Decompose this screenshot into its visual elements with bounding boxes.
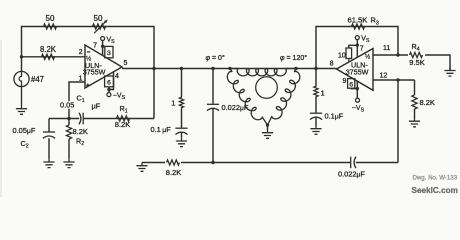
wire pin 7 — [102, 41, 104, 56]
svg-text:4: 4 — [115, 73, 119, 80]
wire box6b to -Vs — [351, 87, 357, 89]
node feedback junction — [67, 117, 70, 120]
wire pin 11 — [373, 55, 450, 71]
svg-text:½: ½ — [365, 53, 370, 60]
svg-text:6: 6 — [107, 80, 111, 87]
node delta TL — [228, 67, 231, 70]
svg-text:Dwg. No. W-133: Dwg. No. W-133 — [413, 175, 458, 182]
svg-text:6: 6 — [349, 82, 353, 89]
node bus-branch3 — [314, 67, 317, 70]
op-amp minus — [87, 51, 90, 53]
svg-text:2: 2 — [79, 49, 83, 56]
svg-text:#47: #47 — [31, 75, 44, 84]
svg-text:8: 8 — [330, 61, 334, 68]
capacitor 0.022uF (bottom) — [350, 157, 352, 169]
svg-text:9: 9 — [343, 78, 347, 85]
rotor circle — [256, 77, 278, 99]
svg-text:11: 11 — [383, 45, 390, 52]
wire input — [22, 56, 86, 58]
capacitor C1 0.05uF — [79, 113, 81, 125]
inductor delta top winding — [230, 69, 296, 76]
lamp DS1 #47 — [14, 71, 29, 86]
wire feedback vertical — [153, 69, 155, 119]
svg-text:SeekIC.com: SeekIC.com — [412, 186, 458, 195]
svg-text:φ = 120°: φ = 120° — [280, 54, 307, 62]
capacitor 0.1uF (left) — [175, 127, 187, 129]
svg-text:7: 7 — [360, 46, 364, 53]
op-amp U1b ½ ULN-3755W — [337, 49, 374, 91]
wire pin 1 to node — [69, 82, 85, 119]
capacitor 0.1uF (right) — [310, 112, 322, 114]
node Vs junction (U1b) — [356, 44, 359, 47]
node output-feedback — [152, 67, 155, 70]
svg-text:0.1μF: 0.1μF — [325, 111, 344, 120]
label 0.05 uF — [59, 101, 75, 109]
ground (lamp) — [16, 106, 27, 115]
inductor delta left winding — [227, 69, 267, 126]
svg-text:8.2K: 8.2K — [73, 127, 88, 136]
wire to ground — [181, 133, 183, 138]
capacitor 0.022uF (vertical) — [207, 103, 219, 105]
wire edge to -Vs node — [356, 81, 358, 88]
svg-text:0.05: 0.05 — [60, 101, 74, 110]
terminal -Vs (U1a) — [107, 93, 111, 97]
wire to ground (right 0.1) — [315, 118, 317, 126]
node pin12 — [396, 78, 399, 81]
node -Vs junction (U1a) — [107, 88, 110, 91]
node -Vs junction (U1b) — [356, 87, 359, 90]
resistor 1 (right) — [315, 69, 317, 87]
wire pin 4 — [109, 72, 114, 89]
wire delta to ground — [267, 125, 269, 130]
resistor R1 8.2K — [117, 116, 130, 121]
node bus-branch1 — [180, 67, 183, 70]
svg-text:3755W: 3755W — [346, 67, 369, 76]
op-amp plus — [86, 84, 89, 86]
wire 0.022 top — [212, 69, 214, 104]
wire -Vs stub — [356, 89, 358, 99]
inductor delta right winding — [268, 69, 300, 126]
resistor 50 (fixed) — [44, 24, 57, 29]
svg-text:5: 5 — [124, 60, 128, 67]
capacitor C2 0.05uF — [43, 131, 55, 133]
resistor 1 (left) — [181, 69, 183, 98]
wire main bus — [122, 68, 337, 70]
internal box pin 10 — [346, 48, 352, 59]
svg-text:50: 50 — [94, 14, 103, 23]
wire feedback line — [49, 118, 79, 120]
svg-text:3: 3 — [107, 50, 111, 57]
terminal Vs (U1a) — [101, 37, 105, 41]
resistor 8.2K (bottom) — [165, 158, 181, 167]
ground (R2) — [63, 159, 74, 168]
wire C2 branch — [48, 119, 50, 133]
svg-text:8.2K: 8.2K — [420, 98, 435, 107]
op-amp U1a ½ ULN-3755W — [85, 45, 122, 88]
wire jog to box 10 — [349, 45, 358, 48]
node Vs junction (U1a) — [101, 45, 104, 48]
svg-text:3755W: 3755W — [83, 68, 106, 77]
svg-text:7: 7 — [93, 43, 97, 50]
svg-text:8.2K: 8.2K — [115, 120, 130, 129]
wire R3 loop — [316, 27, 398, 69]
resistor 8.2K (pin12) — [414, 80, 416, 95]
wire pin 7 (U1b) — [356, 40, 358, 58]
wire pin 12 — [373, 79, 415, 81]
resistor 8.2K (input) — [42, 54, 55, 59]
node input junction — [20, 55, 23, 58]
resistor R2 8.2K — [68, 119, 70, 126]
svg-text:1: 1 — [171, 99, 175, 108]
wire bottom bus — [142, 162, 351, 164]
node bottom-0.022 — [211, 161, 214, 164]
resistor R4 9.5K — [408, 51, 425, 60]
svg-text:0.022μF: 0.022μF — [338, 169, 365, 178]
terminal -Vs (U1b) — [356, 98, 360, 102]
node pin11-R3 — [396, 53, 399, 56]
internal box pin 3 — [105, 46, 113, 57]
wire pin12 down — [397, 80, 399, 163]
ground (0.1uF right) — [310, 126, 321, 135]
svg-text:9.5K: 9.5K — [409, 58, 424, 67]
svg-text:0.1 μF: 0.1 μF — [151, 125, 172, 134]
wire box6 to -Vs — [108, 87, 110, 93]
node bus-branch2 — [211, 67, 214, 70]
svg-text:61.5K: 61.5K — [348, 16, 368, 25]
wire jog to box 3 — [103, 45, 105, 47]
svg-text:50: 50 — [46, 14, 55, 23]
svg-text:1: 1 — [321, 88, 325, 97]
svg-text:10: 10 — [338, 53, 346, 60]
ground (R4) — [444, 67, 455, 76]
node delta TR — [294, 67, 297, 70]
rheostat arrow — [94, 22, 105, 33]
ground (0.1uF left) — [176, 138, 187, 147]
svg-text:0.05μF: 0.05μF — [13, 126, 36, 135]
scan edge artifact — [0, 40, 2, 197]
svg-text:8.2K: 8.2K — [40, 45, 57, 54]
svg-text:8.2K: 8.2K — [166, 168, 181, 177]
node delta bottom — [266, 123, 269, 126]
wire top loop (left vertical, top horizontal, right vertical) — [22, 27, 155, 72]
internal box pin 6 (U1a) — [105, 76, 114, 87]
wire C2 to ground — [48, 138, 50, 159]
internal box pin 6 (U1b) — [348, 79, 355, 89]
resistor 50 (rheostat) — [93, 24, 106, 29]
svg-text:φ = 0°: φ = 0° — [206, 54, 225, 62]
ground (bottom bus) — [136, 163, 147, 172]
ground (8.2K pin12) — [409, 118, 420, 127]
terminal Vs (U1b) — [355, 36, 359, 40]
resistor R3 61.5K — [352, 24, 365, 29]
svg-text:μF: μF — [92, 101, 101, 110]
svg-text:12: 12 — [380, 72, 388, 79]
ground (delta) — [262, 130, 273, 139]
wire 0.022 bottom — [212, 109, 214, 163]
ground (C2) — [43, 159, 54, 168]
